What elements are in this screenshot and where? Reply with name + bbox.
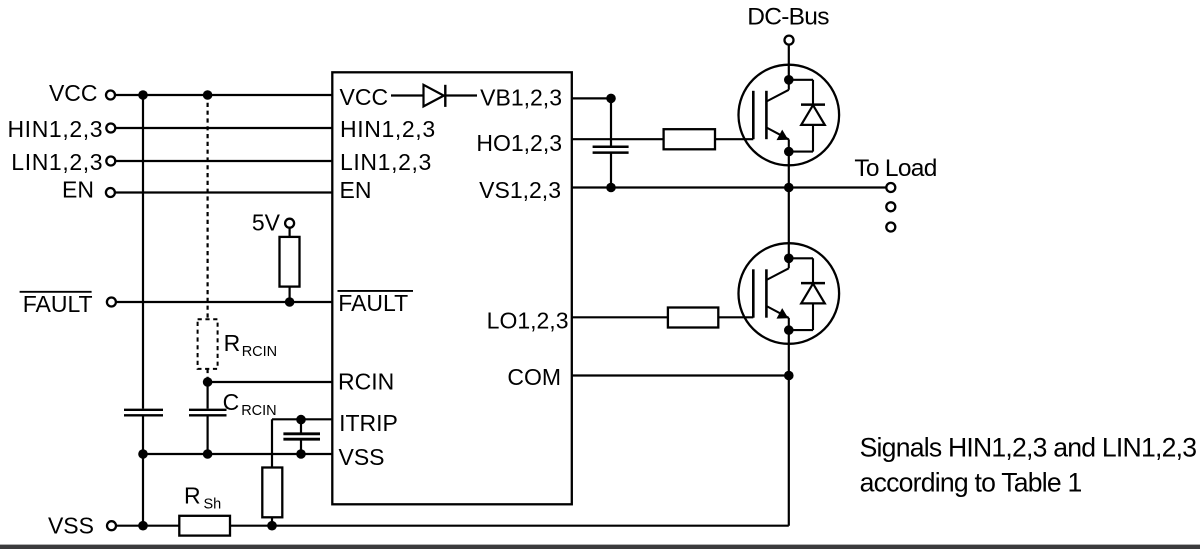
svg-text:COM: COM (507, 364, 561, 390)
svg-text:VCC: VCC (340, 84, 389, 110)
svg-text:RCIN: RCIN (241, 403, 276, 419)
svg-text:VB1,2,3: VB1,2,3 (480, 85, 562, 111)
svg-text:LO1,2,3: LO1,2,3 (487, 308, 569, 334)
svg-text:VSS: VSS (48, 513, 94, 539)
svg-text:VS1,2,3: VS1,2,3 (479, 177, 561, 203)
svg-text:FAULT: FAULT (23, 291, 93, 317)
svg-text:ITRIP: ITRIP (339, 410, 398, 436)
svg-text:HIN1,2,3: HIN1,2,3 (7, 116, 103, 142)
svg-text:To Load: To Load (854, 155, 936, 182)
svg-text:VSS: VSS (339, 444, 385, 470)
svg-text:EN: EN (340, 177, 372, 203)
svg-text:LIN1,2,3: LIN1,2,3 (11, 149, 103, 175)
svg-text:5V: 5V (252, 210, 281, 236)
svg-text:HO1,2,3: HO1,2,3 (476, 130, 562, 156)
svg-text:R: R (184, 482, 201, 508)
svg-text:RCIN: RCIN (338, 369, 394, 395)
svg-text:DC-Bus: DC-Bus (747, 4, 829, 31)
svg-text:Sh: Sh (204, 496, 222, 512)
svg-text:according to Table 1: according to Table 1 (860, 467, 1082, 497)
svg-text:HIN1,2,3: HIN1,2,3 (340, 116, 436, 142)
svg-text:Signals HIN1,2,3 and LIN1,2,3: Signals HIN1,2,3 and LIN1,2,3 (860, 433, 1197, 463)
svg-text:C: C (223, 389, 240, 415)
svg-text:RCIN: RCIN (242, 344, 277, 360)
svg-text:VCC: VCC (49, 80, 98, 106)
svg-text:FAULT: FAULT (338, 290, 408, 316)
svg-text:LIN1,2,3: LIN1,2,3 (340, 149, 432, 175)
svg-text:R: R (224, 330, 241, 356)
svg-text:EN: EN (62, 177, 94, 203)
